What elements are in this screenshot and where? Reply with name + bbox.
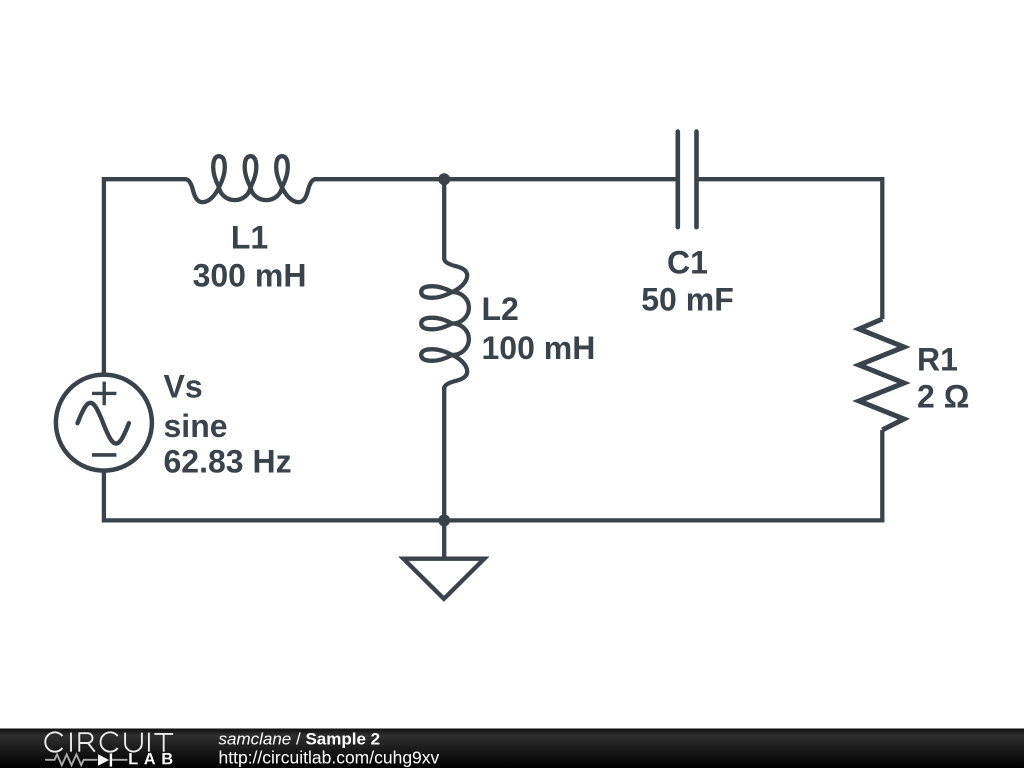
svg-text:300 mH: 300 mH <box>193 258 307 294</box>
svg-text:L1: L1 <box>231 220 268 256</box>
footer bar <box>0 729 1024 769</box>
label R1 value <box>917 341 969 414</box>
voltage source Vs <box>56 375 152 471</box>
inductor L1 <box>186 156 315 202</box>
svg-text:C1: C1 <box>667 244 708 280</box>
svg-text:50 mF: 50 mF <box>641 281 733 317</box>
label L1 value <box>193 220 307 294</box>
CircuitLab logo schematic line (resistor + diode) <box>45 753 128 766</box>
CircuitLab logo "CIRCUIT" <box>45 732 173 751</box>
wire top-left (Vs top to L1) <box>104 179 186 375</box>
svg-text:Vs: Vs <box>164 369 203 405</box>
svg-text:samclane / Sample 2: samclane / Sample 2 <box>219 730 381 749</box>
capacitor C1 <box>678 132 697 228</box>
svg-text:2 Ω: 2 Ω <box>917 379 969 415</box>
resistor R1 <box>859 319 904 430</box>
wire right-lower (R1 to bottom rail) <box>444 430 882 520</box>
wire top-middle (L1 to C1 through node) <box>314 177 678 181</box>
wire L2 bottom stub <box>442 387 446 520</box>
label C1 value <box>641 244 733 317</box>
inductor L2 <box>421 259 469 388</box>
svg-text:L2: L2 <box>482 291 519 327</box>
svg-text:sine: sine <box>164 408 228 444</box>
svg-text:R1: R1 <box>917 341 958 377</box>
label Vs value <box>164 369 292 480</box>
wire L2 top stub <box>442 179 446 259</box>
svg-text:http://circuitlab.com/cuhg9xv: http://circuitlab.com/cuhg9xv <box>219 747 440 767</box>
footer title "samclane / Sample 2" <box>219 730 381 749</box>
CircuitLab logo "LAB" <box>129 753 172 764</box>
footer url <box>219 747 440 767</box>
svg-text:100 mH: 100 mH <box>482 330 596 366</box>
label L2 value <box>482 291 596 366</box>
svg-text:62.83 Hz: 62.83 Hz <box>164 444 292 480</box>
node junction top <box>438 173 450 185</box>
wire bottom-left (Vs bottom to node) <box>104 471 444 521</box>
node junction bottom <box>438 514 450 526</box>
wire top-right (C1 to R1) <box>697 179 883 319</box>
ground <box>403 520 484 598</box>
